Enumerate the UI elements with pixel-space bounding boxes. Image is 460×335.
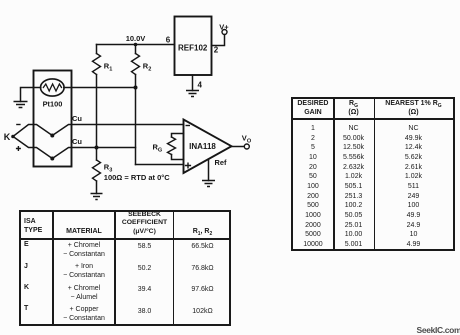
svg-text:Ref: Ref <box>215 158 227 167</box>
svg-text:R2: R2 <box>143 62 152 73</box>
svg-text:INA118: INA118 <box>189 142 216 151</box>
svg-text:Cu: Cu <box>72 137 82 146</box>
svg-text:Pt100: Pt100 <box>43 100 63 109</box>
svg-text:VO: VO <box>242 134 252 145</box>
svg-text:100Ω = RTD at 0°C: 100Ω = RTD at 0°C <box>104 173 170 182</box>
svg-text:6: 6 <box>166 35 171 44</box>
svg-text:Cu: Cu <box>72 114 82 123</box>
svg-text:R1: R1 <box>104 62 113 73</box>
svg-text:R3: R3 <box>104 163 113 174</box>
svg-text:RG: RG <box>153 142 163 153</box>
svg-text:10.0V: 10.0V <box>126 34 146 43</box>
svg-text:2: 2 <box>214 46 219 55</box>
svg-text:REF102: REF102 <box>178 43 208 52</box>
svg-text:V+: V+ <box>219 22 229 31</box>
svg-text:4: 4 <box>198 81 203 90</box>
svg-text:K: K <box>4 132 11 142</box>
